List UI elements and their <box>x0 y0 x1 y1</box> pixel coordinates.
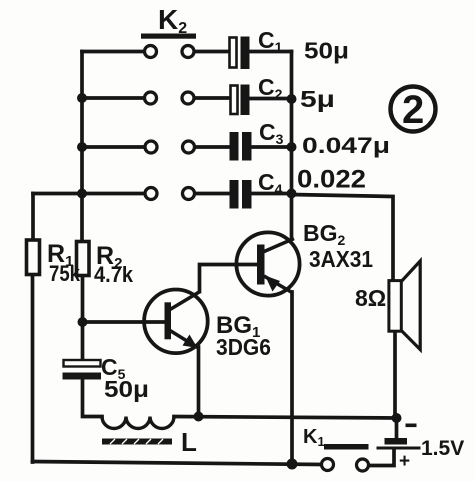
svg-text:0.047μ: 0.047μ <box>302 133 390 158</box>
svg-text:+: + <box>399 451 410 472</box>
svg-text:C2: C2 <box>258 74 283 102</box>
switch K2 contact row3 right <box>183 141 195 153</box>
wire battery positive to K1 <box>369 449 394 466</box>
wire C1 to bus B <box>249 50 292 54</box>
switch K2 contact row2 right <box>182 92 194 104</box>
capacitor C4 <box>230 180 252 209</box>
wire top right to speaker <box>292 195 394 282</box>
svg-text:75k: 75k <box>49 261 81 286</box>
resistor R2 <box>77 242 90 276</box>
wire speaker bottom lead <box>393 331 397 417</box>
capacitor C2 <box>231 85 250 116</box>
svg-text:L: L <box>181 427 197 457</box>
wire row3 right <box>195 145 230 149</box>
transistor BG2 <box>236 232 299 295</box>
svg-text:K1: K1 <box>303 426 325 449</box>
wire C4 to bus B <box>251 192 292 196</box>
svg-text:50μ: 50μ <box>104 376 149 402</box>
wire R2 bottom to C5 <box>81 276 85 361</box>
node BG2 emitter bottom junction <box>287 459 298 470</box>
svg-text:8Ω: 8Ω <box>355 285 386 311</box>
svg-text:C1: C1 <box>258 27 283 55</box>
wire coil to battery junction <box>174 417 397 419</box>
figure number circled 2 <box>391 87 436 133</box>
wire row4 right <box>195 192 230 196</box>
battery minus sign <box>406 424 417 428</box>
svg-text:3AX31: 3AX31 <box>309 246 373 272</box>
svg-text:2: 2 <box>402 88 424 132</box>
svg-text:0.022: 0.022 <box>297 166 366 194</box>
svg-text:C3: C3 <box>259 119 284 147</box>
node row2 bus left <box>77 93 87 103</box>
node speaker-battery junction <box>392 413 402 423</box>
wire bottom horizontal <box>33 462 322 465</box>
inductor L coil <box>102 417 174 429</box>
switch K2 contact row2 left <box>145 92 157 104</box>
wire row4 left (to R1 top) <box>33 192 146 196</box>
svg-text:4.7k: 4.7k <box>94 262 134 287</box>
switch K1 contact right <box>357 459 369 471</box>
node row4 bus left <box>77 189 87 199</box>
node C2 bus right <box>287 94 297 104</box>
wire bus B vertical (C outputs, BG2 collector) <box>290 52 294 240</box>
switch K2 contact row1 left <box>145 46 157 58</box>
wire BG2 emitter lead <box>290 292 294 465</box>
switch K2 contact row1 right <box>182 46 194 58</box>
node L-BG1 emitter junction <box>194 412 204 422</box>
node C3 bus right <box>287 142 297 152</box>
switch K2 contact row4 right <box>183 188 195 200</box>
speaker <box>389 261 420 350</box>
svg-text:3DG6: 3DG6 <box>216 334 271 360</box>
wire BG1 emitter lead <box>197 347 201 417</box>
node R2-C5-BG1 junction <box>78 317 88 327</box>
wire bus left vertical <box>80 52 84 242</box>
wire row1 right <box>194 50 230 54</box>
svg-text:50μ: 50μ <box>304 38 349 64</box>
wire battery negative lead <box>395 418 399 439</box>
inductor L core <box>102 439 172 445</box>
switch K1 contact left <box>322 459 334 471</box>
svg-text:K2: K2 <box>158 4 187 37</box>
wire row2 right <box>194 96 231 100</box>
wire R1 bottom / left outer <box>31 275 35 463</box>
node row3 bus left <box>77 142 87 152</box>
wire row2 left <box>82 96 145 100</box>
switch K2 contact row4 left <box>145 188 157 200</box>
wire row3 left <box>82 145 146 149</box>
wire C2 to bus B <box>249 97 292 101</box>
capacitor C5 <box>63 360 102 380</box>
battery BT1 <box>377 438 421 450</box>
svg-text:BG2: BG2 <box>303 220 346 248</box>
svg-text:C4: C4 <box>258 169 283 197</box>
wire C5 bottom lead <box>83 379 103 417</box>
transistor BG1 <box>144 290 208 354</box>
wire C3 to bus B <box>251 145 292 149</box>
switch K1 bar <box>324 444 369 450</box>
wire row1 left <box>82 50 145 54</box>
svg-text:5μ: 5μ <box>300 86 335 112</box>
svg-text:1.5V: 1.5V <box>421 437 464 460</box>
wire BG1 collector to BG2 base <box>200 265 259 292</box>
capacitor C3 <box>230 132 252 161</box>
wire R1 top lead <box>31 194 35 241</box>
wire BG1 base <box>83 320 167 324</box>
node C4 bus right <box>287 189 297 199</box>
switch K2 contact row3 left <box>145 141 157 153</box>
resistor R1 <box>27 240 40 275</box>
switch K2 bar <box>141 34 196 39</box>
capacitor C1 <box>230 37 250 70</box>
